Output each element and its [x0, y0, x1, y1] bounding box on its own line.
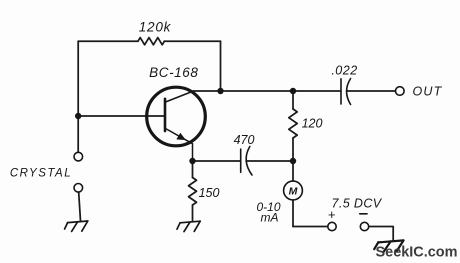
- terminal minus: [360, 222, 368, 230]
- wire meter to plus terminal: [293, 226, 328, 228]
- node emitter junction: [189, 158, 195, 164]
- node base junction: [75, 113, 81, 119]
- wire cap to OUT: [348, 90, 396, 92]
- node 120/output junction: [290, 88, 296, 94]
- wire left vertical: [77, 41, 79, 152]
- terminal crystal lower: [74, 184, 83, 193]
- terminal OUT: [396, 87, 405, 96]
- emitter arrow: [177, 134, 185, 140]
- wire cap to meter node: [247, 160, 293, 162]
- svg-text:BC-168: BC-168: [149, 65, 198, 80]
- ground 150 resistor: [177, 221, 200, 231]
- wire 150 top lead: [192, 161, 194, 178]
- label minus sign: [360, 213, 367, 215]
- svg-text:120: 120: [302, 117, 323, 131]
- svg-text:150: 150: [199, 186, 220, 200]
- ground crystal: [65, 221, 88, 231]
- wire top-right horizontal: [164, 40, 220, 42]
- transistor Q1 BC-168: [147, 87, 206, 161]
- ground supply negative: [374, 240, 403, 251]
- terminal crystal upper: [74, 152, 83, 161]
- node meter junction: [290, 158, 296, 164]
- svg-text:7.5 DCV: 7.5 DCV: [331, 197, 382, 211]
- wire right vertical to collector node: [220, 41, 222, 91]
- svg-text:470: 470: [234, 133, 255, 147]
- wire top-left horizontal: [78, 40, 138, 42]
- wire 120 bottom lead: [292, 138, 294, 161]
- meter M1: [284, 181, 303, 200]
- capacitor C1 .022: [341, 79, 351, 105]
- capacitor C2 470: [241, 147, 252, 176]
- wire meter top lead: [292, 161, 294, 181]
- wire collector row: [193, 90, 340, 92]
- resistor R2 120: [289, 109, 297, 138]
- wire meter bottom lead: [292, 200, 294, 227]
- resistor R3 150: [189, 178, 197, 206]
- svg-text:120k: 120k: [139, 20, 172, 35]
- svg-text:CRYSTAL: CRYSTAL: [10, 168, 72, 180]
- wire 120 top lead: [292, 91, 294, 109]
- svg-text:M: M: [289, 185, 298, 197]
- terminal plus: [328, 222, 336, 230]
- node collector junction: [217, 88, 223, 94]
- wire base: [78, 115, 164, 117]
- svg-text:OUT: OUT: [413, 85, 443, 99]
- resistor R1 120k: [138, 38, 164, 45]
- wire crystal lower terminal to ground: [79, 193, 81, 221]
- svg-text:mA: mA: [261, 211, 279, 225]
- wire emitter row left: [193, 160, 241, 162]
- wire 150 bottom lead: [192, 205, 194, 221]
- wire minus terminal to ground: [369, 227, 393, 241]
- svg-text:SeekIC.com: SeekIC.com: [376, 244, 458, 261]
- svg-text:.022: .022: [331, 64, 357, 78]
